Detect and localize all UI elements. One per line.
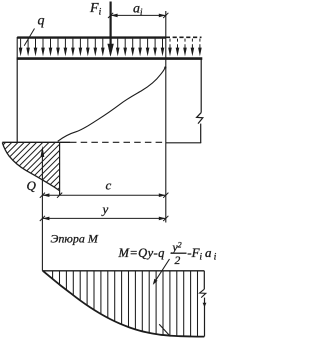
moment diagram top line — [42, 270, 204, 272]
beam left edge — [16, 58, 18, 142]
beam bottom right solid segment — [166, 142, 201, 144]
moment diagram curve — [43, 271, 205, 337]
formula M=Qy-q(y^2/2)-F_i a_i — [118, 240, 217, 267]
beam right edge lower part — [200, 124, 202, 143]
small arrowhead on right edge — [203, 303, 207, 308]
y left arrowhead and tick — [42, 217, 49, 221]
svg-text:i: i — [200, 252, 203, 262]
beam axis dashed line — [70, 141, 166, 143]
load arrows (solid zone) — [19, 39, 165, 57]
shear wedge right edge — [59, 142, 61, 195]
svg-text:y: y — [101, 201, 109, 216]
beam right edge break symbol — [197, 113, 203, 124]
svg-text:i: i — [214, 252, 217, 262]
tick at wedge edge on c line — [57, 193, 62, 198]
force F_i arrow — [109, 2, 111, 47]
moment diagram right edge break symbol — [200, 289, 206, 297]
svg-text:q: q — [38, 14, 45, 29]
section extension line (right, x=165.8) — [165, 11, 167, 223]
c right arrowhead and tick — [159, 193, 166, 197]
tick on curve at section position — [159, 324, 170, 336]
dimension c line — [42, 194, 165, 196]
interior S-curve — [58, 67, 166, 141]
label q with leader — [24, 29, 34, 46]
svg-text:a: a — [205, 245, 212, 260]
y right arrowhead and tick — [159, 217, 166, 221]
shear wedge curve outline — [2, 143, 59, 191]
svg-text:c: c — [106, 177, 112, 192]
moment diagram right edge lower part — [204, 298, 206, 337]
beam right edge upper part — [200, 58, 202, 113]
junction dot at curve top — [164, 66, 166, 68]
c left arrowhead and tick — [42, 193, 49, 197]
left closing tick of load line — [16, 37, 18, 58]
a_i left arrowhead and tick — [111, 14, 118, 18]
fraction bar — [171, 252, 187, 254]
shear force Q arrow — [41, 152, 43, 271]
load arrows (dashed zone) — [168, 39, 202, 57]
beam top edge — [17, 57, 203, 60]
leader arrow from formula to diagram — [154, 259, 170, 283]
shear wedge top line — [2, 141, 70, 143]
dimension a_i line — [111, 14, 166, 16]
svg-text:ai: ai — [133, 2, 143, 18]
svg-text:Q: Q — [27, 178, 37, 193]
svg-text:Fi: Fi — [89, 1, 102, 18]
svg-text:y2: y2 — [172, 240, 182, 254]
distributed load q top line (solid part) — [17, 36, 166, 38]
distributed load q top line (dashed part) — [166, 36, 202, 38]
moment diagram right edge upper part — [203, 271, 205, 289]
svg-text:M=Qy-q: M=Qy-q — [118, 246, 165, 260]
svg-text:2: 2 — [175, 255, 181, 267]
dimension y line — [42, 217, 165, 219]
a_i right arrowhead and tick — [159, 14, 166, 18]
svg-text:Эпюра М: Эпюра М — [51, 231, 99, 245]
